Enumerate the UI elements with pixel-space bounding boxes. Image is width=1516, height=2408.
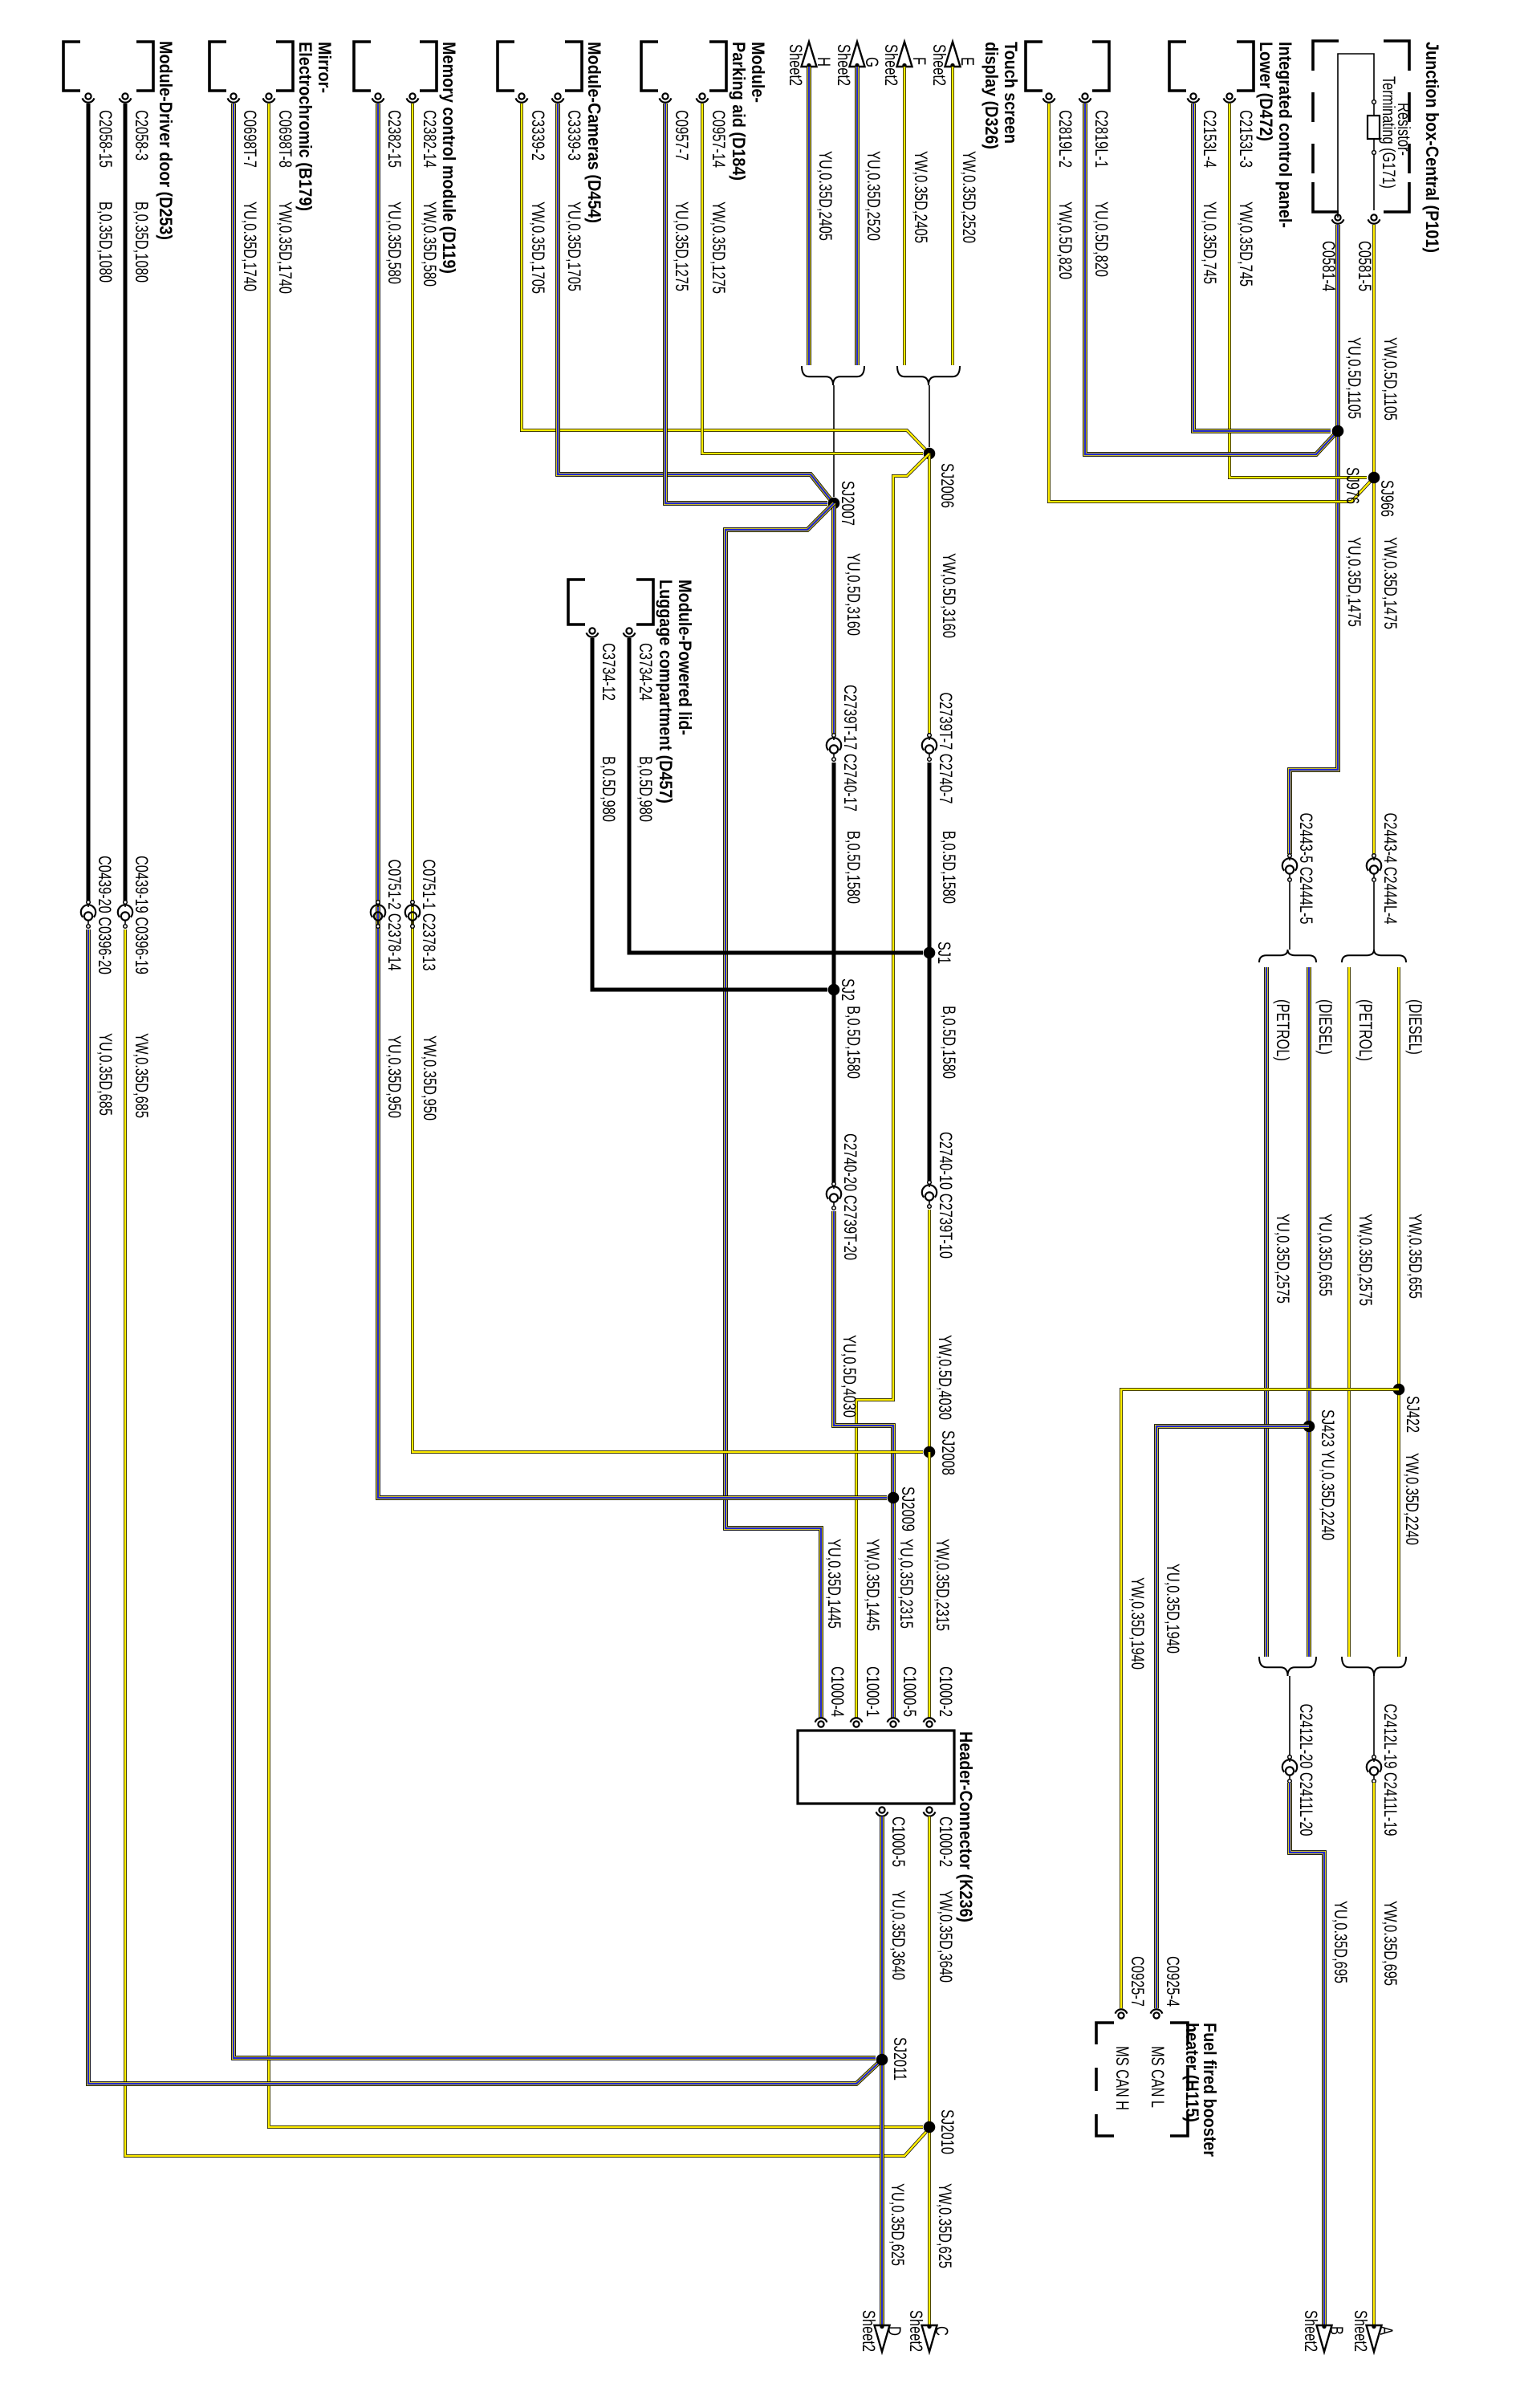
wire C2382-15 YU to SJ2009	[378, 104, 887, 1498]
inline connector C2740-20 C2739T-20	[832, 1182, 836, 1186]
wire SJ2007 branch YU,0.35D,1445 to C1000-4	[725, 503, 834, 1718]
splice SJ2006	[924, 448, 936, 460]
wire E YW	[952, 67, 953, 365]
wire C2819L-1 YU	[1085, 104, 1336, 454]
svg-text:YU,0.35D,2520: YU,0.35D,2520	[864, 151, 884, 241]
brace EF	[897, 366, 960, 385]
splice SJ966	[1368, 472, 1380, 484]
svg-text:YW,0.35D,1275: YW,0.35D,1275	[709, 201, 729, 294]
svg-text:Electrochromic (B179): Electrochromic (B179)	[295, 42, 315, 211]
svg-text:(DIESEL): (DIESEL)	[1405, 999, 1425, 1055]
svg-text:YU,0.5D,4030: YU,0.5D,4030	[839, 1335, 860, 1418]
splice SJ2009	[888, 1492, 900, 1504]
svg-text:C1000-5: C1000-5	[900, 1666, 920, 1717]
resistor G171 Resistor-Terminating	[1368, 116, 1380, 139]
wire YU,0.35D,695 to arrow B	[1290, 1783, 1324, 2325]
svg-text:SJ2006: SJ2006	[937, 463, 957, 508]
pin C1000-2 left	[926, 1721, 932, 1727]
pin C2819L-2	[1046, 93, 1051, 99]
wire YW,0.35D,695 to arrow A	[1373, 1783, 1375, 2325]
svg-text:YU,0.35D,745: YU,0.35D,745	[1200, 201, 1220, 284]
svg-text:YW,0.35D,2575: YW,0.35D,2575	[1355, 1214, 1376, 1306]
svg-text:C2153L-3: C2153L-3	[1236, 110, 1256, 168]
brace YW pair end	[1342, 1657, 1406, 1676]
svg-text:(PETROL): (PETROL)	[1355, 999, 1376, 1061]
svg-text:C1000-2: C1000-2	[936, 1816, 956, 1867]
sheet connector B Sheet2	[1317, 2325, 1332, 2352]
svg-text:YW,0.35D,1940: YW,0.35D,1940	[1128, 1577, 1148, 1670]
wire YU,0.5D,3160	[833, 503, 835, 734]
brace YW pair	[1342, 950, 1406, 962]
splice SJ423	[1303, 1421, 1315, 1433]
svg-text:YW,0.35D,695: YW,0.35D,695	[1380, 1901, 1400, 1986]
svg-text:C1000-5: C1000-5	[888, 1816, 908, 1867]
wire P101 resistor loop	[1338, 54, 1374, 218]
sheet connector H Sheet2	[802, 42, 817, 67]
svg-text:C0698T-8: C0698T-8	[275, 110, 295, 168]
svg-text:C0925-7: C0925-7	[1128, 1956, 1148, 2007]
svg-text:C3339-2: C3339-2	[528, 110, 548, 161]
sheet connector A Sheet2	[1367, 2325, 1382, 2352]
wire SJ423 branch YU,0.35D,1940 to C0925-4	[1156, 1426, 1309, 2008]
svg-text:YW,0.35D,1475: YW,0.35D,1475	[1380, 537, 1400, 629]
component box B179 Mirror-Electrochromic	[276, 42, 293, 91]
inline connector C2443-4 C2444L-4	[1372, 854, 1376, 858]
svg-text:YW,0.35D,580: YW,0.35D,580	[420, 201, 440, 287]
wire SJ422 branch YW,0.35D,1940 to C0925-7	[1121, 1389, 1399, 2008]
wire conn to brace YU	[1289, 882, 1290, 950]
component box H115 Fuel fired booster heater	[1170, 2023, 1188, 2136]
svg-text:YU,0.35D,655: YU,0.35D,655	[1315, 1214, 1335, 1296]
svg-text:C2819L-2: C2819L-2	[1055, 110, 1075, 168]
svg-text:YU,0.35D,580: YU,0.35D,580	[384, 201, 404, 284]
component box D184 Module-Parking aid	[709, 42, 726, 91]
svg-text:Terminating (G171): Terminating (G171)	[1379, 76, 1399, 189]
svg-text:B,0.5D,980: B,0.5D,980	[599, 756, 619, 822]
wire YU diesel lane	[1308, 967, 1310, 1657]
svg-text:Sheet2: Sheet2	[834, 44, 854, 86]
pin C1000-1 left	[853, 1721, 859, 1727]
svg-text:SJ2: SJ2	[838, 978, 858, 1001]
svg-text:C2382-15: C2382-15	[384, 110, 404, 168]
svg-text:Module-Cameras (D454): Module-Cameras (D454)	[584, 42, 604, 223]
svg-text:YU,0.35D,950: YU,0.35D,950	[384, 1035, 404, 1118]
svg-text:C2740-20 C2739T-20: C2740-20 C2739T-20	[840, 1133, 860, 1260]
svg-text:YU,0.5D,820: YU,0.5D,820	[1091, 201, 1112, 277]
wire YW,0.5D,3160	[929, 454, 930, 734]
component box K236 Header-Connector	[798, 1731, 954, 1804]
svg-text:(PETROL): (PETROL)	[1273, 999, 1293, 1061]
svg-text:B,0.5D,1580: B,0.5D,1580	[939, 1006, 959, 1079]
pin C3734-12	[589, 628, 595, 633]
svg-text:YU,0.35D,1275: YU,0.35D,1275	[672, 201, 692, 291]
svg-text:Sheet2: Sheet2	[906, 2310, 926, 2352]
svg-text:YU,0.35D,2405: YU,0.35D,2405	[815, 151, 835, 241]
pin C1000-5 left	[890, 1721, 896, 1727]
svg-text:Sheet2: Sheet2	[1351, 2310, 1371, 2352]
wire C3734-24 B to SJ1	[629, 638, 923, 953]
component box P101 Junction box-Central	[1384, 41, 1409, 212]
svg-text:SJ2010: SJ2010	[937, 2109, 957, 2154]
wire C2153L-4 YU	[1193, 104, 1331, 431]
pin C2058-15	[85, 93, 91, 99]
wire brace to SJ2006	[929, 385, 930, 447]
svg-text:Sheet2: Sheet2	[1301, 2310, 1321, 2352]
wire YU,0.35D,685 to SJ2011	[88, 929, 880, 2084]
svg-text:YU,0.35D,695: YU,0.35D,695	[1331, 1901, 1351, 1983]
svg-text:H: H	[814, 57, 834, 67]
wire brace to conn	[1373, 1676, 1375, 1756]
sheet connector E Sheet2	[945, 42, 961, 67]
brace YU pair	[1259, 950, 1316, 962]
wire YW,0.35D,2315	[929, 1452, 930, 1718]
wire SJ2006 jog YW,0.35D,1445 to C1000-1	[856, 454, 929, 1718]
component box D454 Module-Cameras	[565, 42, 582, 91]
component box D253 Module-Driver door	[136, 42, 153, 91]
wire B,0.5D,1580	[928, 763, 932, 953]
inline connector C2412L-19 C2411L-19	[1372, 1755, 1376, 1759]
svg-text:YW,0.35D,2240: YW,0.35D,2240	[1402, 1453, 1422, 1545]
wire YW diesel lane	[1398, 967, 1400, 1657]
wire YU,0.5D,4030	[834, 1211, 893, 1718]
svg-text:Module-: Module-	[748, 42, 768, 103]
svg-text:YW,0.35D,3640: YW,0.35D,3640	[936, 1890, 956, 1983]
svg-text:F: F	[909, 57, 929, 65]
wire C0698T-8 YW to SJ2010	[269, 104, 923, 2127]
svg-text:Parking aid (D184): Parking aid (D184)	[729, 42, 749, 181]
pin C0925-4	[1153, 2012, 1159, 2018]
svg-text:display (D326): display (D326)	[982, 42, 1002, 149]
pin C2153L-3	[1226, 93, 1232, 99]
inline connector C2443-5 C2444L-5	[1288, 854, 1292, 858]
svg-text:YW,0.35D,685: YW,0.35D,685	[132, 1033, 152, 1118]
svg-text:C2058-3: C2058-3	[132, 110, 152, 161]
pin C0698T-8	[266, 93, 271, 99]
svg-text:YW,0.35D,655: YW,0.35D,655	[1405, 1214, 1425, 1299]
pin C2058-3	[122, 93, 128, 99]
splice SJ1	[924, 947, 936, 959]
svg-text:SJ2009: SJ2009	[898, 1487, 918, 1531]
wire YW,0.35D,685 to SJ2010	[125, 929, 926, 2156]
svg-text:C1000-1: C1000-1	[863, 1666, 883, 1717]
pin C3339-3	[555, 93, 560, 99]
svg-text:B,0.5D,1580: B,0.5D,1580	[843, 1006, 864, 1079]
pin C3734-24	[626, 628, 632, 633]
svg-text:Luggage compartment (D457): Luggage compartment (D457)	[656, 580, 676, 803]
svg-text:YU,0.35D,2315: YU,0.35D,2315	[896, 1539, 917, 1629]
svg-text:YW,0.35D,2520: YW,0.35D,2520	[959, 151, 979, 243]
wire C3734-12 B to SJ2	[592, 638, 827, 990]
svg-text:YW,0.5D,1105: YW,0.5D,1105	[1380, 337, 1400, 421]
svg-text:A: A	[1376, 2326, 1396, 2335]
svg-text:Header-Connector (K236): Header-Connector (K236)	[956, 1731, 976, 1922]
svg-text:B,0.5D,980: B,0.5D,980	[636, 756, 656, 822]
pin C2153L-4	[1190, 93, 1196, 99]
svg-text:C0439-19 C0396-19: C0439-19 C0396-19	[132, 856, 152, 974]
svg-text:C2058-15: C2058-15	[96, 110, 116, 168]
splice SJ976	[1332, 425, 1344, 437]
wire YW petrol lane	[1348, 967, 1350, 1657]
svg-text:SJ976: SJ976	[1343, 467, 1363, 504]
inline connector C0439-19 C0396-19	[124, 901, 128, 905]
svg-text:C0751-1 C2378-13: C0751-1 C2378-13	[419, 860, 439, 971]
svg-text:C3734-12: C3734-12	[599, 643, 619, 701]
svg-text:C0439-20 C0396-20: C0439-20 C0396-20	[95, 856, 115, 974]
wire C0581-4 YU to SJ976 to C2443-5	[1290, 225, 1338, 854]
svg-text:YW,0.35D,745: YW,0.35D,745	[1236, 201, 1256, 287]
inline connector C2740-10 C2739T-10	[928, 1181, 932, 1185]
sheet connector C Sheet2	[922, 2325, 937, 2352]
wire C0957-14 YW to SJ2006	[702, 104, 923, 454]
wire B,0.5D,1580	[832, 763, 836, 990]
pin C3339-2	[518, 93, 524, 99]
svg-text:Mirror-: Mirror-	[315, 42, 335, 93]
svg-text:C2443-5 C2444L-5: C2443-5 C2444L-5	[1296, 813, 1316, 925]
svg-text:C2412L-20 C2411L-20: C2412L-20 C2411L-20	[1296, 1704, 1316, 1837]
wire C3339-3 YU to SJ2007	[558, 104, 832, 502]
pin C0957-14	[699, 93, 705, 99]
svg-text:E: E	[957, 57, 977, 66]
wire YU petrol lane	[1266, 967, 1267, 1657]
splice SJ422	[1393, 1384, 1405, 1396]
svg-text:YU,0.35D,685: YU,0.35D,685	[96, 1033, 116, 1116]
pin C0581-5	[1371, 214, 1376, 220]
svg-text:YU,0.35D,1445: YU,0.35D,1445	[824, 1539, 844, 1629]
svg-text:C2412L-19 C2411L-19: C2412L-19 C2411L-19	[1380, 1704, 1400, 1837]
sheet connector F Sheet2	[897, 42, 912, 67]
pin C0925-7	[1118, 2012, 1124, 2018]
pin C0698T-7	[230, 93, 236, 99]
svg-text:SJ1: SJ1	[934, 942, 954, 964]
splice SJ2010	[924, 2121, 936, 2133]
svg-text:B,0.5D,1580: B,0.5D,1580	[843, 831, 864, 904]
svg-text:C0581-5: C0581-5	[1355, 241, 1375, 291]
wire H YU	[808, 67, 810, 365]
svg-text:SJ2011: SJ2011	[890, 2037, 910, 2081]
svg-text:C0957-14: C0957-14	[709, 110, 729, 168]
wire C2058-3 B	[124, 104, 128, 901]
svg-text:SJ966: SJ966	[1377, 480, 1397, 517]
inline connector C2739T-17 C2740-17	[832, 734, 836, 738]
svg-text:C0698T-7: C0698T-7	[240, 110, 260, 168]
wire brace to SJ2007	[833, 385, 835, 497]
svg-text:C1000-4: C1000-4	[827, 1666, 847, 1717]
wire C0581-5 YW to SJ966 to C2443-4	[1373, 225, 1375, 854]
svg-text:SJ422: SJ422	[1403, 1396, 1423, 1433]
svg-text:MS CAN H: MS CAN H	[1112, 2046, 1132, 2110]
svg-text:C2153L-4: C2153L-4	[1200, 110, 1220, 168]
svg-text:YU,0.5D,1105: YU,0.5D,1105	[1344, 337, 1364, 419]
svg-text:Sheet2: Sheet2	[929, 44, 949, 86]
svg-text:C1000-2: C1000-2	[936, 1666, 956, 1717]
svg-text:SJ2008: SJ2008	[938, 1430, 958, 1475]
inline connector C0751-1 C2378-13	[411, 901, 415, 905]
svg-text:YU,0.35D,3640: YU,0.35D,3640	[888, 1890, 908, 1980]
inline connector C2412L-20 C2411L-20	[1288, 1755, 1292, 1759]
svg-text:Memory control module (D119): Memory control module (D119)	[439, 42, 459, 274]
svg-text:Touch screen: Touch screen	[1001, 42, 1021, 144]
svg-text:YW,0.35D,1445: YW,0.35D,1445	[863, 1539, 883, 1631]
svg-text:G: G	[862, 57, 882, 67]
svg-text:YU,0.35D,1740: YU,0.35D,1740	[240, 201, 260, 291]
pin C0581-4	[1335, 214, 1340, 220]
svg-text:YW,0.35D,625: YW,0.35D,625	[935, 2183, 955, 2268]
svg-text:Sheet2: Sheet2	[859, 2310, 879, 2352]
component box D472 Integrated control panel-Lower	[1237, 42, 1254, 91]
sheet connector D Sheet2	[875, 2325, 890, 2352]
svg-text:C2739T-7 C2740-7: C2739T-7 C2740-7	[936, 693, 956, 804]
svg-text:C2819L-1: C2819L-1	[1091, 110, 1112, 168]
wire C0957-7 YU to SJ2007	[665, 104, 827, 503]
pin C0957-7	[662, 93, 668, 99]
svg-text:C2740-10 C2739T-10: C2740-10 C2739T-10	[936, 1132, 956, 1259]
brace YU pair end	[1259, 1657, 1316, 1676]
brace GH	[802, 366, 864, 385]
pin C1000-5 right	[879, 1807, 884, 1812]
svg-text:(DIESEL): (DIESEL)	[1315, 999, 1335, 1055]
wire YW,0.5D,4030	[929, 1210, 930, 1452]
svg-text:C3339-3: C3339-3	[564, 110, 584, 161]
svg-text:YW,0.35D,2315: YW,0.35D,2315	[933, 1539, 953, 1631]
component box D119 Memory control module	[420, 42, 437, 91]
wire B,0.5D,1580	[832, 990, 836, 1182]
svg-text:C0751-2 C2378-14: C0751-2 C2378-14	[384, 860, 404, 971]
inline connector C2739T-7 C2740-7	[928, 734, 932, 738]
svg-text:YW,0.35D,950: YW,0.35D,950	[420, 1035, 440, 1121]
wire C2382-14 YW to SJ2008	[413, 104, 923, 1452]
wire B,0.5D,1580	[928, 953, 932, 1181]
svg-text:SJ423 YU,0.35D,2240: SJ423 YU,0.35D,2240	[1318, 1409, 1338, 1540]
wire C2153L-3 YW	[1229, 104, 1367, 478]
svg-text:Module-Driver door (D253): Module-Driver door (D253)	[156, 41, 176, 240]
svg-text:Integrated control panel-: Integrated control panel-	[1275, 42, 1295, 228]
wire C2819L-2 YW	[1049, 104, 1372, 502]
svg-text:B,0.5D,1580: B,0.5D,1580	[939, 831, 959, 904]
svg-text:C2382-14: C2382-14	[420, 110, 440, 168]
svg-text:YU,0.35D,2575: YU,0.35D,2575	[1273, 1214, 1293, 1304]
svg-text:YW,0.5D,820: YW,0.5D,820	[1055, 201, 1075, 279]
inline connector C0751-2 C2378-14	[376, 901, 380, 905]
wire G YU	[856, 67, 858, 365]
svg-text:YU,0.35D,1705: YU,0.35D,1705	[564, 201, 584, 291]
svg-text:MS CAN L: MS CAN L	[1148, 2046, 1168, 2108]
svg-text:YW,0.35D,2405: YW,0.35D,2405	[911, 151, 931, 243]
pin C1000-2 right	[926, 1807, 932, 1812]
pin C2819L-1	[1082, 93, 1087, 99]
svg-text:D: D	[884, 2326, 904, 2336]
sheet connector G Sheet2	[850, 42, 865, 67]
svg-text:YW,0.5D,4030: YW,0.5D,4030	[935, 1335, 955, 1420]
svg-text:B,0.35D,1080: B,0.35D,1080	[132, 201, 152, 283]
svg-text:YU,0.35D,1475: YU,0.35D,1475	[1344, 537, 1364, 627]
svg-text:C0925-4: C0925-4	[1163, 1956, 1183, 2007]
svg-text:Lower (D472): Lower (D472)	[1256, 42, 1276, 141]
svg-text:C0957-7: C0957-7	[672, 110, 692, 161]
svg-text:B: B	[1327, 2326, 1347, 2335]
component box D457 Module-Powered lid-Luggage compartment	[636, 580, 653, 624]
wire F YW	[904, 67, 905, 365]
wire C1000-5 YU,0.35D,3640 to SJ2011	[881, 1816, 883, 2325]
wire C2058-15 B	[87, 104, 91, 901]
svg-text:YU,0.35D,625: YU,0.35D,625	[888, 2183, 908, 2266]
wire conn to brace YW	[1373, 882, 1375, 950]
svg-text:C2739T-17 C2740-17: C2739T-17 C2740-17	[840, 685, 860, 811]
pin C1000-4 left	[818, 1721, 823, 1727]
splice SJ2007	[828, 498, 840, 510]
svg-text:Module-Powered lid-: Module-Powered lid-	[675, 580, 695, 735]
svg-text:C: C	[932, 2326, 952, 2336]
splice SJ2008	[924, 1446, 936, 1458]
svg-text:YW,0.35D,1740: YW,0.35D,1740	[275, 201, 295, 294]
svg-text:heater (H115): heater (H115)	[1182, 2023, 1202, 2122]
wire brace to conn	[1289, 1676, 1290, 1756]
svg-text:SJ2007: SJ2007	[838, 481, 858, 526]
wire C1000-2 YW,0.35D,3640 to SJ2010	[929, 1816, 930, 2325]
svg-text:Sheet2: Sheet2	[881, 44, 901, 86]
splice SJ2	[828, 984, 840, 996]
svg-text:Sheet2: Sheet2	[786, 44, 806, 86]
splice SJ2011	[876, 2054, 888, 2066]
svg-text:YW,0.5D,3160: YW,0.5D,3160	[939, 553, 959, 638]
inline connector C0439-20 C0396-20	[87, 901, 91, 905]
svg-text:C3734-24: C3734-24	[636, 643, 656, 701]
component box D326 Touch screen display	[1092, 42, 1109, 91]
svg-text:YU,0.5D,3160: YU,0.5D,3160	[843, 553, 864, 636]
svg-text:B,0.35D,1080: B,0.35D,1080	[96, 201, 116, 283]
pin C2382-14	[409, 93, 415, 99]
svg-text:YW,0.35D,1705: YW,0.35D,1705	[528, 201, 548, 294]
pin C2382-15	[375, 93, 380, 99]
svg-text:C2443-4 C2444L-4: C2443-4 C2444L-4	[1380, 813, 1400, 925]
svg-text:YU,0.35D,1940: YU,0.35D,1940	[1163, 1564, 1183, 1653]
svg-text:Junction box-Central (P101): Junction box-Central (P101)	[1422, 42, 1442, 253]
wire C0698T-7 YU to SJ2011	[234, 104, 876, 2058]
wire C3339-2 YW to SJ2006	[522, 104, 928, 452]
